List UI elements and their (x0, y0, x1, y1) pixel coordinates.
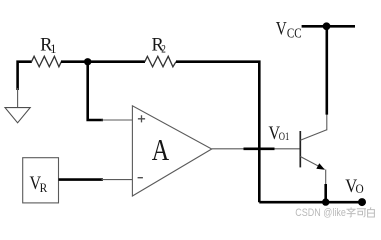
svg-text:CC: CC (287, 25, 302, 40)
transistor Q1 base bar (299, 131, 301, 167)
wire: R1 to junction to R2 (61, 60, 145, 63)
wire: VR to - input (thick part) (59, 178, 103, 181)
transistor Q1 emitter diagonal (300, 157, 324, 170)
junction node dot (84, 58, 91, 65)
watermark glyph ke (357, 209, 366, 218)
wire: thin drop to ground symbol (17, 88, 19, 107)
svg-text:O: O (356, 182, 364, 196)
wire: junction down and right to + input (thick part) (88, 62, 103, 120)
svg-text:1: 1 (50, 42, 56, 56)
node dot on Vcc rail (323, 22, 331, 30)
terminal dot Vo (358, 198, 366, 206)
transistor Q1 collector diagonal (300, 130, 327, 140)
svg-text:A: A (152, 132, 170, 167)
watermark glyph bai (368, 207, 375, 217)
op-amp U1 triangle (132, 106, 211, 196)
wire: R2 right, corner, feedback drop to bottom rail (176, 62, 259, 203)
wire: collector thick vertical up to Vcc rail (325, 26, 328, 114)
svg-text:V: V (276, 19, 287, 40)
wire: bottom rail to Vo terminal (259, 201, 365, 204)
svg-text:2: 2 (161, 42, 166, 56)
emitter arrowhead (316, 163, 325, 170)
wire: thin lead into - input (102, 179, 133, 181)
junction dot emitter/bottom rail (322, 198, 329, 205)
resistor R1 (32, 56, 62, 67)
svg-text:R: R (40, 180, 48, 195)
wire: op-amp output to transistor base (thin) (212, 148, 301, 150)
box VR source (23, 158, 59, 203)
wire: thick overlay on output wire crossing feedback line (244, 148, 275, 151)
wire: emitter thin vertical (325, 170, 327, 186)
wire: collector thin vertical (326, 113, 328, 130)
minus sign (- input) (138, 177, 143, 179)
wire: top-left lead into R1 and corner down toward ground (18, 62, 32, 90)
wire: thin lead into + input (102, 119, 133, 121)
svg-text:O1: O1 (279, 129, 290, 143)
wire: emitter thick vertical to bottom rail (324, 184, 327, 202)
resistor R2 (145, 56, 176, 67)
ground (5, 108, 30, 123)
svg-text:CSDN @like: CSDN @like (295, 207, 346, 219)
plus sign (+ input) (138, 115, 145, 122)
wire: Vcc rail (302, 25, 355, 28)
watermark glyph li (347, 207, 356, 217)
